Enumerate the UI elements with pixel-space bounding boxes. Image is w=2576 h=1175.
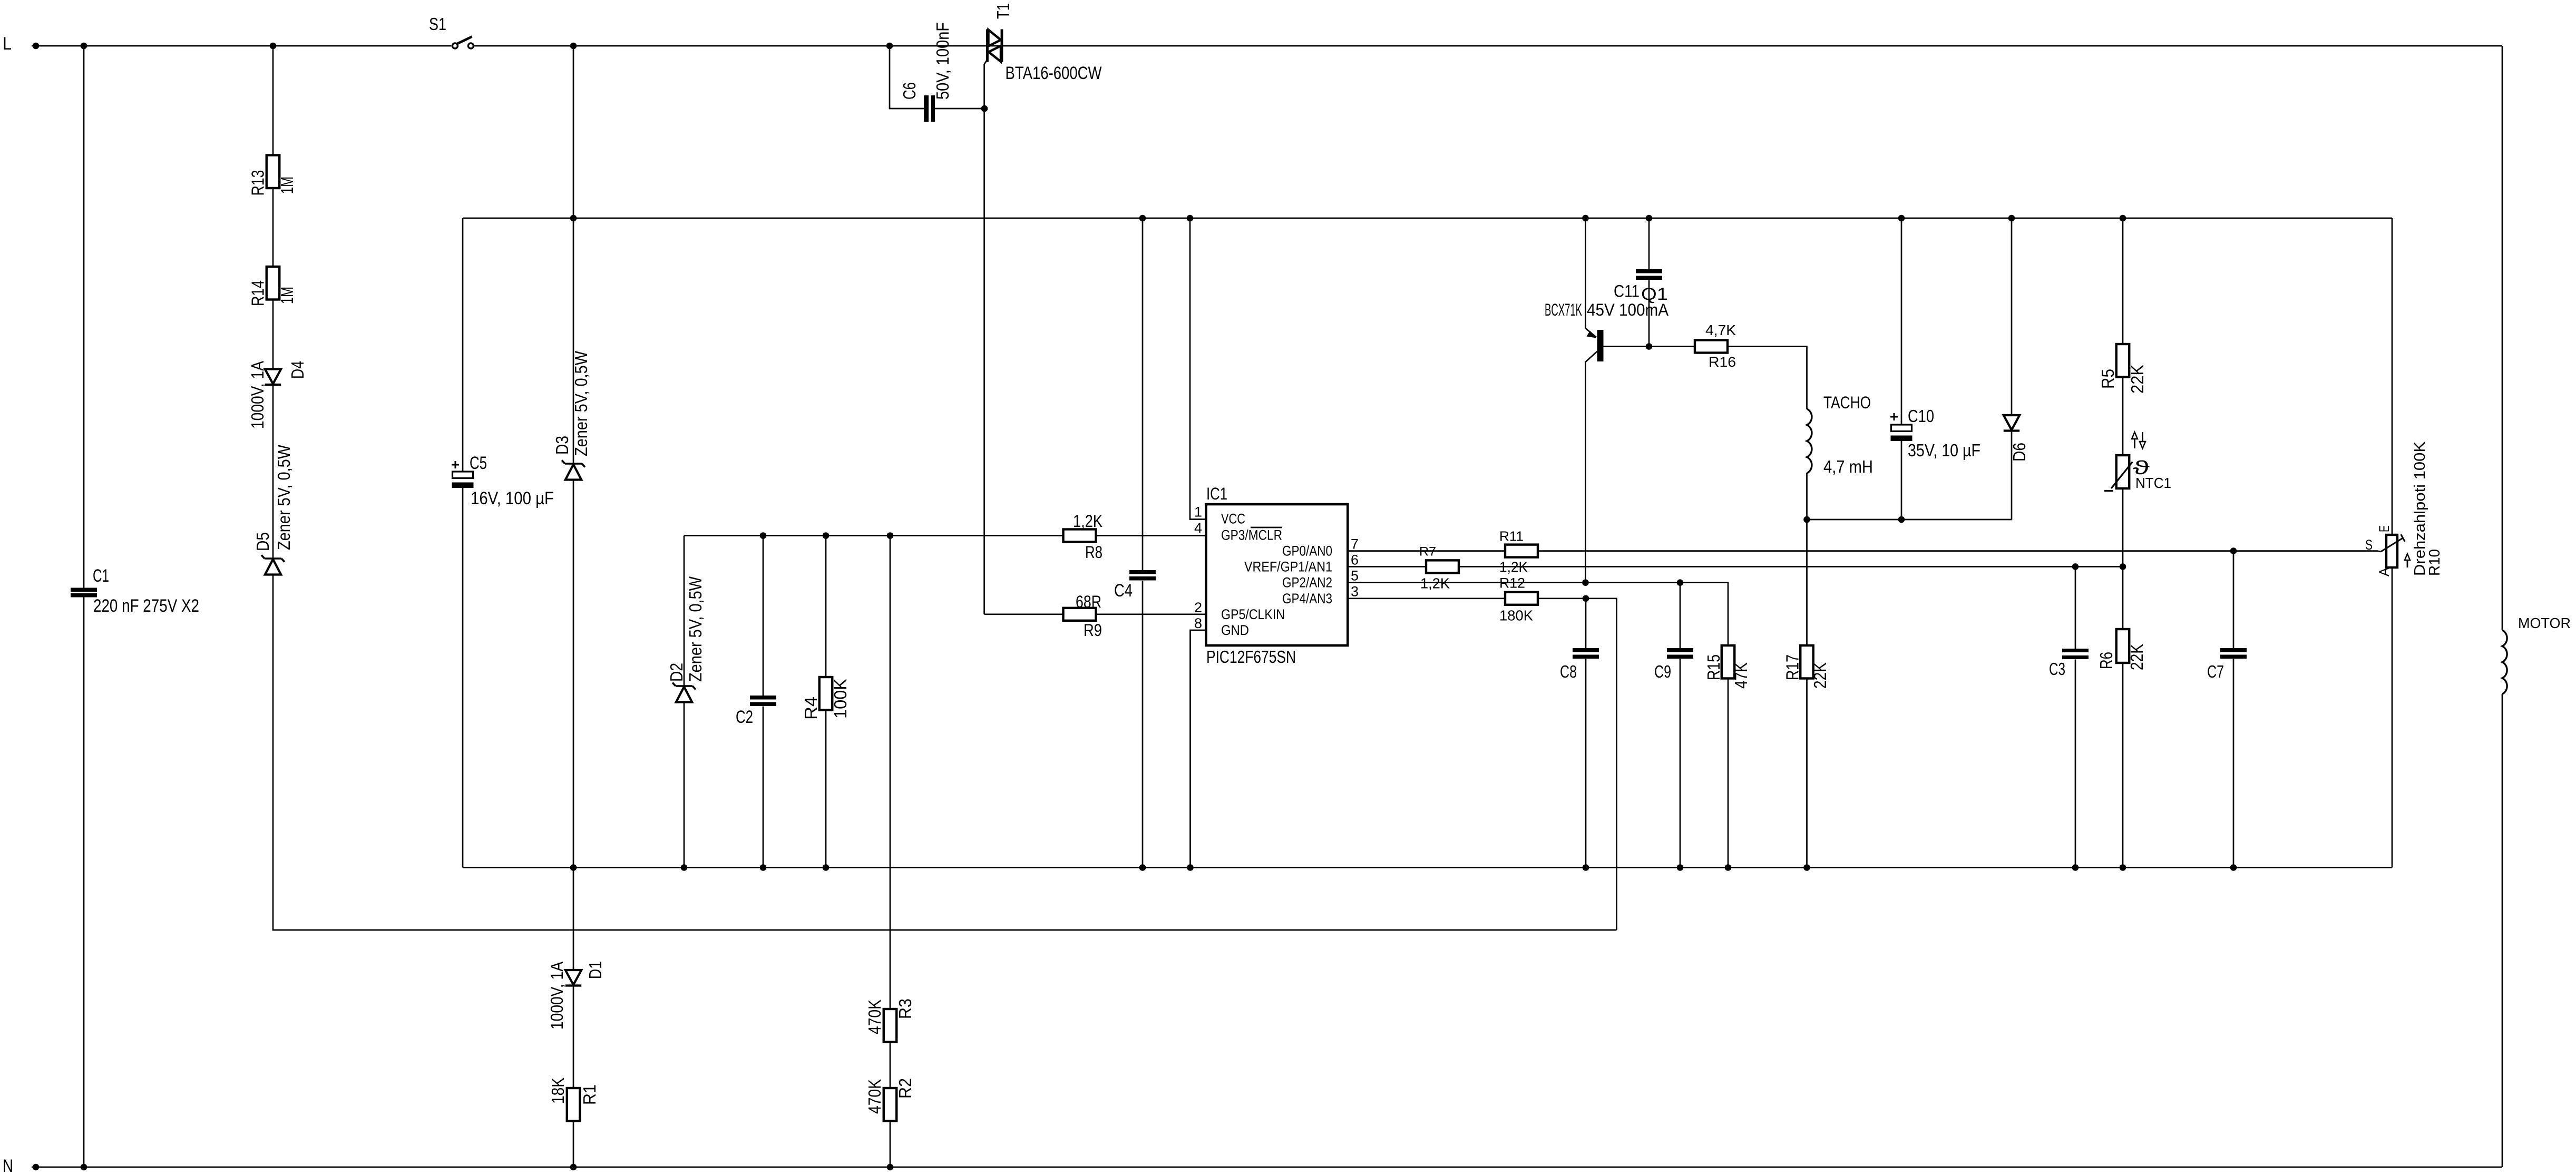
svg-text:4: 4 xyxy=(1194,520,1202,536)
capacitor C6 xyxy=(924,95,935,122)
svg-text:L: L xyxy=(3,34,12,54)
label C9 xyxy=(1654,662,1671,681)
svg-text:22K: 22K xyxy=(2128,365,2147,394)
node GND-D2 xyxy=(681,864,688,871)
svg-text:Zener 5V, 0,5W: Zener 5V, 0,5W xyxy=(274,444,294,550)
wire C11 branch xyxy=(1648,218,1650,347)
diode D6 xyxy=(2004,415,2019,431)
svg-text:D4: D4 xyxy=(288,361,307,379)
svg-text:C11: C11 xyxy=(1614,282,1640,301)
svg-text:R3: R3 xyxy=(895,998,915,1019)
svg-text:C8: C8 xyxy=(1560,662,1577,681)
svg-text:GP0/AN0: GP0/AN0 xyxy=(1282,543,1332,559)
wire 5V rail xyxy=(463,218,2392,219)
wire poti bottom xyxy=(2392,568,2393,868)
label D3 value xyxy=(571,350,591,456)
resistor R3 xyxy=(884,1009,897,1042)
wire pin1 vertical xyxy=(1190,218,1206,520)
svg-text:Zener 5V, 0,5W: Zener 5V, 0,5W xyxy=(571,350,591,456)
label R15 xyxy=(1704,654,1723,680)
wire right border (motor branch) xyxy=(2502,46,2503,1167)
label R16 xyxy=(1709,354,1736,370)
label R10 name xyxy=(2412,441,2428,576)
label R4 value xyxy=(831,679,850,719)
svg-text:D2: D2 xyxy=(667,663,686,682)
ntc arrows xyxy=(2132,432,2145,448)
capacitor C4 xyxy=(1129,570,1156,581)
node GND-R17 xyxy=(1803,864,1810,871)
svg-text:C2: C2 xyxy=(736,707,753,727)
svg-text:100K: 100K xyxy=(831,679,850,719)
svg-text:GP2/AN2: GP2/AN2 xyxy=(1282,575,1332,591)
plus C10 xyxy=(1890,413,1898,420)
transistor Q1 xyxy=(1586,330,1604,583)
label R2 xyxy=(895,1078,915,1099)
svg-text:S1: S1 xyxy=(429,14,446,34)
svg-text:50V, 100nF: 50V, 100nF xyxy=(933,22,952,100)
svg-text:18K: 18K xyxy=(548,1078,568,1104)
wire VCC xyxy=(684,535,1206,536)
node 5V-C10 xyxy=(1898,215,1905,222)
svg-text:TACHO: TACHO xyxy=(1823,393,1871,412)
svg-text:470K: 470K xyxy=(865,1000,884,1034)
wire R5-NTC xyxy=(2122,377,2124,456)
svg-text:VCC: VCC xyxy=(1221,511,1245,527)
svg-text:180K: 180K xyxy=(1499,607,1533,623)
label R11 value xyxy=(1499,559,1528,575)
node 5V-D6 xyxy=(2008,215,2015,222)
svg-text:1,2K: 1,2K xyxy=(1073,512,1102,531)
label C8 xyxy=(1560,662,1577,681)
resistor R17 xyxy=(1800,645,1813,679)
wire GND rail xyxy=(463,867,2392,868)
label R6 xyxy=(2096,652,2116,669)
label R7 value xyxy=(1420,575,1450,591)
svg-text:Zener 5V, 0,5W: Zener 5V, 0,5W xyxy=(686,576,705,682)
svg-text:D1: D1 xyxy=(586,961,605,979)
ntc theta xyxy=(2133,457,2150,478)
node pin3-C8 xyxy=(1583,595,1589,602)
label D2 xyxy=(667,663,686,682)
wire C5 branch xyxy=(462,218,464,868)
svg-text:C1: C1 xyxy=(93,566,109,586)
node N-C1 xyxy=(81,1164,87,1171)
svg-text:45V 100mA: 45V 100mA xyxy=(1587,300,1669,319)
svg-text:NTC1: NTC1 xyxy=(2135,475,2171,491)
wire C6 tap xyxy=(890,46,924,109)
svg-text:GP4/AN3: GP4/AN3 xyxy=(1282,591,1332,606)
node 5V-pin1 xyxy=(1187,215,1194,222)
svg-text:A: A xyxy=(2376,567,2392,576)
pin name GP4/AN3 xyxy=(1282,591,1332,606)
svg-text:D3: D3 xyxy=(552,436,572,455)
svg-text:R10: R10 xyxy=(2426,549,2443,576)
wire poti top xyxy=(2392,218,2393,535)
wire C4 branch xyxy=(1142,218,1144,868)
wire R16-tacho xyxy=(1728,347,1807,409)
node L-C6 xyxy=(886,43,893,50)
label Q1 value xyxy=(1545,300,1669,319)
svg-text:R13: R13 xyxy=(248,170,268,196)
svg-text:4,7 mH: 4,7 mH xyxy=(1823,457,1873,476)
label NTC1 xyxy=(2135,475,2171,491)
svg-text:22K: 22K xyxy=(1810,662,1830,689)
wire D6 branch xyxy=(2011,218,2013,520)
node tachorail-tacho xyxy=(1803,516,1810,523)
svg-text:R17: R17 xyxy=(1783,654,1802,680)
pin number 2 xyxy=(1194,600,1202,615)
svg-text:6: 6 xyxy=(1351,552,1359,568)
svg-text:R1: R1 xyxy=(580,1084,599,1105)
svg-text:VREF/GP1/AN1: VREF/GP1/AN1 xyxy=(1244,559,1332,575)
label C10 value xyxy=(1908,440,1980,460)
label C10 xyxy=(1908,406,1934,426)
svg-text:GP5/CLKIN: GP5/CLKIN xyxy=(1221,606,1285,622)
switch S1 xyxy=(452,37,473,49)
svg-text:R9: R9 xyxy=(1084,621,1102,640)
ic IC1 box xyxy=(1206,504,1348,645)
svg-text:1000V, 1A: 1000V, 1A xyxy=(547,962,567,1030)
wire triac gate xyxy=(984,59,988,614)
svg-text:1M: 1M xyxy=(277,177,297,194)
label T1 xyxy=(993,3,1013,19)
svg-text:C9: C9 xyxy=(1654,662,1671,681)
label IC1 xyxy=(1206,484,1227,503)
wire pin5 xyxy=(1348,583,1728,645)
label R9 value xyxy=(1076,592,1101,611)
label R15 value xyxy=(1731,662,1751,689)
svg-text:R2: R2 xyxy=(895,1078,915,1099)
wire tacho rail xyxy=(1807,519,2012,521)
label R17 value xyxy=(1810,662,1830,689)
node GND-C2 xyxy=(760,864,767,871)
wire L rail xyxy=(32,45,2502,47)
pin name GP0/AN0 xyxy=(1282,543,1332,559)
pin number 4 xyxy=(1194,520,1202,536)
capacitor C10 xyxy=(1891,425,1913,441)
svg-text:R15: R15 xyxy=(1704,654,1723,680)
label R12 xyxy=(1499,575,1525,591)
diode D1 xyxy=(565,970,581,986)
label R10 A xyxy=(2376,567,2392,576)
label R14 value xyxy=(277,287,297,304)
node N-R2 xyxy=(887,1164,894,1171)
node GND-C8 xyxy=(1583,864,1589,871)
capacitor C7 xyxy=(2220,648,2247,659)
node GND-C4 xyxy=(1139,864,1146,871)
wire D3 top xyxy=(573,46,574,464)
capacitor C2 xyxy=(750,696,776,706)
wire Q1 base xyxy=(1604,346,1695,347)
pin number 8 xyxy=(1194,615,1202,631)
resistor R13 xyxy=(267,155,280,189)
wire D2 branch top xyxy=(684,536,685,687)
capacitor C9 xyxy=(1667,648,1693,659)
resistor R5 xyxy=(2116,344,2130,377)
node VCC-divider xyxy=(887,532,894,539)
node L-C1 xyxy=(81,43,87,50)
wire Q1 emitter xyxy=(1586,218,1597,337)
resistor R8 xyxy=(1063,530,1096,542)
label C4 xyxy=(1114,581,1133,601)
svg-text:S: S xyxy=(2365,537,2373,553)
label R10 xyxy=(2426,549,2443,576)
label D6 xyxy=(2009,443,2029,462)
wire pin3 xyxy=(1348,599,1617,930)
wire D4-D5 xyxy=(272,385,274,559)
wire pin8 vertical xyxy=(1191,630,1206,868)
wire C6 right xyxy=(935,108,984,110)
label C2 xyxy=(736,707,753,727)
node VCC-C2 xyxy=(760,532,767,539)
wire R13-R14 xyxy=(272,188,274,267)
wire D2-GND xyxy=(684,702,685,868)
resistor R15 xyxy=(1722,645,1735,679)
label C5 value xyxy=(471,488,554,508)
node N-terminal xyxy=(33,1164,40,1171)
wire R6 branch xyxy=(2122,566,2124,867)
label R6 value xyxy=(2127,644,2146,670)
svg-text:R12: R12 xyxy=(1499,575,1525,591)
svg-text:C3: C3 xyxy=(2049,659,2065,679)
label R16 value xyxy=(1705,322,1736,338)
svg-text:16V, 100 µF: 16V, 100 µF xyxy=(471,488,554,508)
label R10 S xyxy=(2365,537,2373,553)
pin name GP3/MCLR xyxy=(1221,527,1282,543)
node pin5-Q1col xyxy=(1582,579,1589,586)
label C6 xyxy=(900,82,919,100)
zener D2 xyxy=(672,683,696,702)
wire C1 branch xyxy=(83,46,85,1167)
wire pin6 xyxy=(1348,566,2123,567)
svg-text:8: 8 xyxy=(1194,615,1202,631)
wire gate-R9 xyxy=(984,613,1063,615)
svg-text:47K: 47K xyxy=(1731,662,1751,689)
capacitor C8 xyxy=(1573,648,1599,659)
label R3 value xyxy=(865,1000,884,1034)
label R14 xyxy=(248,280,268,306)
svg-text:PIC12F675SN: PIC12F675SN xyxy=(1206,647,1296,667)
svg-text:4,7K: 4,7K xyxy=(1705,322,1736,338)
label D1 value xyxy=(547,962,567,1030)
label R8 value xyxy=(1073,512,1102,531)
svg-text:GND: GND xyxy=(1221,622,1249,638)
svg-text:5: 5 xyxy=(1351,568,1359,584)
label R17 xyxy=(1783,654,1802,680)
node base-C11 xyxy=(1646,343,1653,350)
svg-text:C5: C5 xyxy=(470,453,487,473)
label D4 xyxy=(288,361,307,379)
svg-text:R4: R4 xyxy=(801,697,821,720)
label R5 value xyxy=(2128,365,2147,394)
node L-terminal xyxy=(33,43,40,50)
svg-text:1000V, 1A: 1000V, 1A xyxy=(248,361,267,429)
resistor R6 xyxy=(2116,629,2130,663)
wire R15-GND xyxy=(1728,679,1729,868)
svg-text:R14: R14 xyxy=(248,280,268,306)
label R10 E xyxy=(2376,525,2392,532)
node GND-C7 xyxy=(2230,864,2237,871)
zener D5 xyxy=(261,555,285,575)
svg-text:R8: R8 xyxy=(1085,543,1102,562)
node C6-gate xyxy=(981,105,988,112)
label R1 xyxy=(580,1084,599,1105)
svg-text:N: N xyxy=(3,1156,13,1175)
thermistor NTC1 xyxy=(2104,455,2133,491)
wire R14-D4 xyxy=(272,300,274,369)
capacitor C3 xyxy=(2062,649,2089,659)
svg-text:T1: T1 xyxy=(993,3,1013,19)
wire D5 bottom to sync line xyxy=(273,575,1617,931)
svg-text:D5: D5 xyxy=(253,532,272,551)
svg-text:1M: 1M xyxy=(277,287,297,304)
wire D3-GND xyxy=(573,480,574,868)
svg-text:R5: R5 xyxy=(2098,369,2118,389)
label D5 xyxy=(253,532,272,551)
svg-text:2: 2 xyxy=(1194,600,1202,615)
pin name VCC xyxy=(1221,511,1245,527)
pin name GP2/AN2 xyxy=(1282,575,1332,591)
svg-text:MOTOR: MOTOR xyxy=(2518,615,2571,631)
label C6 value xyxy=(933,22,952,100)
svg-text:GP3/MCLR: GP3/MCLR xyxy=(1221,527,1282,543)
inductor MOTOR xyxy=(2502,630,2507,694)
label C7 xyxy=(2207,662,2224,681)
node pin7-C7 xyxy=(2230,547,2237,554)
pin number 6 xyxy=(1351,552,1359,568)
wire N rail xyxy=(32,1167,2502,1168)
wire tacho bottom xyxy=(1806,473,1808,520)
label C11 xyxy=(1614,282,1640,301)
pin number 3 xyxy=(1351,584,1359,600)
resistor R12 xyxy=(1505,592,1538,605)
wire pin7 xyxy=(1348,551,2381,552)
node GND-pin8 xyxy=(1187,864,1194,871)
svg-text:470K: 470K xyxy=(865,1079,884,1114)
label D2 value xyxy=(686,576,705,682)
label R13 xyxy=(248,170,268,196)
svg-text:E: E xyxy=(2376,525,2392,532)
wire C3 branch xyxy=(2075,566,2076,867)
svg-text:R16: R16 xyxy=(1709,354,1736,370)
node 5V-C4 xyxy=(1139,215,1146,222)
svg-text:35V, 10 µF: 35V, 10 µF xyxy=(1908,440,1980,460)
poti arrow xyxy=(2405,554,2410,567)
wire C10 branch xyxy=(1901,218,1902,520)
potentiometer R10 xyxy=(2381,534,2405,567)
resistor R4 xyxy=(819,677,833,710)
label R7 xyxy=(1419,545,1436,559)
node pin6-C3 xyxy=(2072,563,2079,570)
node 5V-C11 xyxy=(1646,215,1653,222)
wire R17 top xyxy=(1806,520,1808,645)
node L-R13 xyxy=(270,43,277,50)
resistor R14 xyxy=(267,267,280,300)
node pin5-C9 xyxy=(1677,579,1684,586)
label R4 xyxy=(801,697,821,720)
wire GND-D1 xyxy=(573,868,574,971)
pin name GND xyxy=(1221,622,1249,638)
label R8 xyxy=(1085,543,1102,562)
resistor R1 xyxy=(567,1088,580,1121)
label R12 value xyxy=(1499,607,1533,623)
wire C7 branch xyxy=(2233,551,2235,868)
svg-text:1: 1 xyxy=(1194,504,1202,520)
svg-text:IC1: IC1 xyxy=(1206,484,1227,503)
label R9 xyxy=(1084,621,1102,640)
pin name GP5/CLKIN xyxy=(1221,606,1285,622)
capacitor C5 xyxy=(452,472,474,488)
svg-text:R11: R11 xyxy=(1499,528,1524,544)
svg-text:BCX71K: BCX71K xyxy=(1545,300,1582,319)
triac T1 xyxy=(988,30,1002,62)
label S1 xyxy=(429,14,446,34)
node 5V-D3 xyxy=(570,215,577,222)
node GND-R15 xyxy=(1725,864,1732,871)
node GND-D1 xyxy=(570,864,577,871)
node GND-C9 xyxy=(1677,864,1684,871)
resistor R9 xyxy=(1063,608,1096,621)
wire R5 top xyxy=(2122,218,2124,344)
label C1 xyxy=(93,566,109,586)
label D5 value xyxy=(274,444,294,550)
wire R1-N xyxy=(573,1121,574,1168)
wire R13 top xyxy=(272,46,274,155)
svg-text:C7: C7 xyxy=(2207,662,2224,681)
wire C2 branch xyxy=(763,536,764,868)
svg-text:C10: C10 xyxy=(1908,406,1934,426)
label C5 xyxy=(470,453,487,473)
wire R9-pin2 xyxy=(1096,613,1206,615)
zener D3 xyxy=(562,461,585,480)
node pin6-NTC-R6 xyxy=(2120,563,2126,570)
label C3 xyxy=(2049,659,2065,679)
svg-text:C4: C4 xyxy=(1114,581,1133,601)
wire NTC-pin6 xyxy=(2122,489,2124,567)
diode D4 xyxy=(265,369,281,385)
resistor R2 xyxy=(884,1088,897,1121)
N label xyxy=(3,1156,13,1175)
label D1 xyxy=(586,961,605,979)
overline MCLR xyxy=(1251,527,1282,528)
label R5 xyxy=(2098,369,2118,389)
svg-text:3: 3 xyxy=(1351,584,1359,600)
node GND-C3 xyxy=(2072,864,2079,871)
label PIC12F675SN xyxy=(1206,647,1296,667)
pin number 5 xyxy=(1351,568,1359,584)
svg-text:22K: 22K xyxy=(2127,644,2146,670)
label D3 xyxy=(552,436,572,455)
wire R17-GND xyxy=(1806,679,1808,868)
plus C5 xyxy=(452,461,459,468)
node GND-R6 xyxy=(2120,864,2126,871)
wire R4 branch xyxy=(825,536,827,868)
capacitor C11 xyxy=(1636,269,1662,280)
label Q1 xyxy=(1641,285,1668,303)
wire C9 branch xyxy=(1680,583,1681,868)
resistor R7 xyxy=(1426,560,1459,573)
wire divider xyxy=(890,536,891,1168)
svg-text:BTA16-600CW: BTA16-600CW xyxy=(1006,63,1102,83)
wire C8 branch xyxy=(1585,599,1587,868)
node 5V-R5 xyxy=(2120,215,2126,222)
svg-text:68R: 68R xyxy=(1076,592,1101,611)
resistor R11 xyxy=(1505,545,1538,557)
node L-D3 xyxy=(570,43,577,50)
label R13 value xyxy=(277,177,297,194)
label R3 xyxy=(895,998,915,1019)
label MOTOR xyxy=(2518,615,2571,631)
